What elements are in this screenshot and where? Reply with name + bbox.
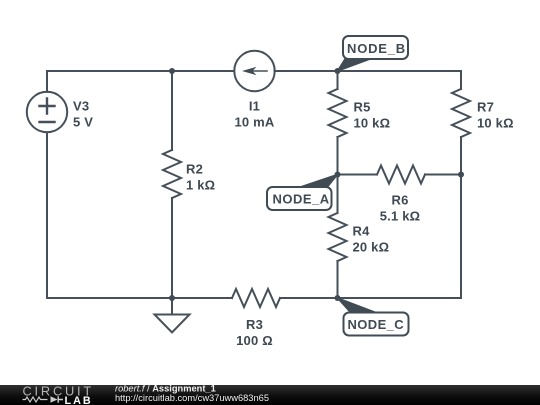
NODE_C pointer wedge bbox=[338, 298, 378, 313]
svg-text:robert.f / Assignment_1: robert.f / Assignment_1 bbox=[115, 384, 216, 394]
svg-text:10 mA: 10 mA bbox=[234, 115, 274, 130]
resistor R6 zigzag bbox=[377, 166, 425, 184]
wire middle vertical R2 leads bbox=[171, 71, 173, 298]
resistor R7 zigzag bbox=[452, 89, 470, 137]
I1 arrow shaft bbox=[250, 70, 267, 72]
svg-text:5 V: 5 V bbox=[73, 115, 93, 130]
svg-text:NODE_B: NODE_B bbox=[347, 41, 406, 56]
V3 plus sign bbox=[40, 99, 55, 114]
wire R6 leads bbox=[338, 174, 462, 176]
svg-text:R6: R6 bbox=[391, 192, 408, 207]
resistor R5 zigzag bbox=[329, 89, 347, 137]
CircuitLab logo resistor zigzag bbox=[23, 397, 48, 402]
V3 minus sign bbox=[40, 121, 55, 123]
resistor R4 zigzag bbox=[329, 213, 347, 261]
wire R4 leads bbox=[337, 175, 339, 299]
svg-text:100 Ω: 100 Ω bbox=[236, 333, 273, 348]
resistor R3 zigzag bbox=[232, 289, 280, 307]
svg-text:V3: V3 bbox=[73, 99, 89, 114]
wire left vertical bbox=[46, 71, 48, 298]
node junction dot ground bbox=[169, 295, 175, 301]
voltage source V3 circle bbox=[27, 92, 67, 132]
node junction dot top middle bbox=[169, 68, 175, 74]
wire bottom-left horizontal bbox=[47, 297, 232, 299]
svg-text:5.1 kΩ: 5.1 kΩ bbox=[380, 208, 421, 223]
svg-text:R3: R3 bbox=[246, 317, 263, 332]
resistor R2 zigzag bbox=[163, 150, 181, 198]
CircuitLab logo diode bbox=[51, 396, 58, 402]
current source I1 circle bbox=[234, 51, 274, 91]
wire bottom-right horizontal bbox=[338, 297, 462, 299]
svg-text:NODE_A: NODE_A bbox=[273, 192, 330, 207]
svg-text:1 kΩ: 1 kΩ bbox=[186, 178, 215, 193]
ground symbol bbox=[155, 298, 190, 333]
svg-text:10 kΩ: 10 kΩ bbox=[354, 115, 391, 130]
node junction dot R6-R7 bbox=[458, 172, 464, 178]
svg-text:NODE_C: NODE_C bbox=[348, 317, 405, 332]
wire bottom-middle horizontal bbox=[280, 297, 338, 299]
NODE_B label box bbox=[343, 36, 408, 59]
node junction dot NODE_C bbox=[335, 295, 341, 301]
svg-text:10 kΩ: 10 kΩ bbox=[477, 115, 514, 130]
svg-text:R4: R4 bbox=[353, 224, 371, 239]
svg-text:LAB: LAB bbox=[65, 395, 93, 405]
NODE_C label box bbox=[344, 313, 409, 336]
wire top-left horizontal bbox=[47, 70, 234, 72]
wire R7 leads bbox=[460, 71, 462, 175]
svg-text:20 kΩ: 20 kΩ bbox=[353, 240, 390, 255]
svg-text:R7: R7 bbox=[477, 99, 494, 114]
svg-text:I1: I1 bbox=[249, 99, 260, 114]
NODE_A pointer wedge bbox=[299, 175, 338, 188]
I1 arrowhead bbox=[242, 67, 257, 75]
node junction dot NODE_B bbox=[335, 68, 341, 74]
node junction dot NODE_A bbox=[335, 172, 341, 178]
svg-text:R5: R5 bbox=[354, 99, 371, 114]
svg-text:http://circuitlab.com/cw37uww6: http://circuitlab.com/cw37uww683n65 bbox=[115, 393, 269, 403]
wire top-right horizontal bbox=[275, 70, 462, 72]
NODE_A label box bbox=[267, 187, 332, 210]
svg-text:R2: R2 bbox=[186, 162, 203, 177]
NODE_B pointer wedge bbox=[338, 59, 371, 71]
wire right vertical to bottom bbox=[460, 175, 462, 299]
wire R5 leads bbox=[337, 71, 339, 175]
